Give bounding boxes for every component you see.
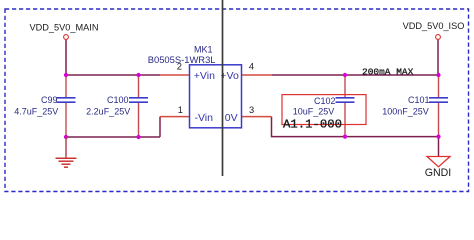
svg-text:VDD_5V0_MAIN: VDD_5V0_MAIN: [30, 22, 99, 32]
svg-text:200mA MAX: 200mA MAX: [362, 67, 414, 78]
svg-text:0V: 0V: [225, 112, 238, 124]
svg-text:C101: C101: [408, 95, 430, 105]
svg-text:100nF_25V: 100nF_25V: [382, 106, 429, 116]
svg-text:C100: C100: [107, 95, 129, 105]
svg-text:+Vin: +Vin: [194, 70, 215, 82]
svg-text:4.7uF_25V: 4.7uF_25V: [14, 106, 58, 116]
svg-text:10uF_25V: 10uF_25V: [293, 106, 335, 116]
svg-text:4: 4: [249, 61, 254, 71]
svg-text:C99: C99: [41, 95, 58, 105]
svg-text:C102: C102: [314, 96, 336, 106]
svg-text:-Vin: -Vin: [195, 112, 214, 124]
svg-text:3: 3: [249, 105, 254, 115]
svg-text:GNDI: GNDI: [425, 167, 451, 179]
svg-text:VDD_5V0_ISO: VDD_5V0_ISO: [403, 21, 465, 31]
svg-text:A1.1-000: A1.1-000: [283, 117, 342, 131]
svg-text:1: 1: [178, 105, 183, 115]
svg-text:2.2uF_25V: 2.2uF_25V: [86, 106, 130, 116]
svg-text:B0505S-1WR3L: B0505S-1WR3L: [148, 54, 216, 65]
